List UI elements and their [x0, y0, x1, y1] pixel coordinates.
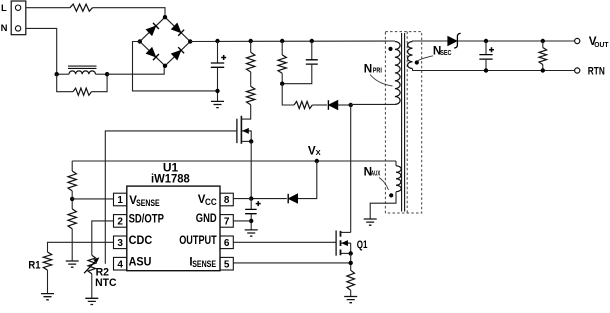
ground NTC — [85, 298, 98, 304]
svg-text:iW1788: iW1788 — [151, 172, 190, 186]
wire clamp R to diode — [312, 104, 327, 106]
svg-text:GND: GND — [196, 213, 217, 225]
fusible resistor RF — [70, 4, 93, 11]
divider resistor R3b — [68, 209, 76, 229]
wire VCC diode to VCC node — [251, 198, 287, 200]
NPRI pointer — [370, 75, 393, 87]
svg-text:8: 8 — [224, 195, 230, 206]
wire Vx line — [72, 160, 396, 162]
transformer dashed box — [385, 32, 421, 213]
wire divider to ground — [71, 229, 73, 261]
pin 8 box — [220, 193, 233, 206]
wire bus to snubber C — [311, 41, 313, 60]
resistor R1 — [43, 252, 51, 270]
Q1 channel segments — [340, 231, 342, 255]
node output cap top — [484, 39, 488, 43]
svg-text:SEC: SEC — [440, 48, 452, 57]
output cap plus — [489, 47, 494, 52]
ground VCC cap — [245, 230, 258, 236]
NTC thermistor R2 — [88, 255, 96, 274]
wire R5 to R6 — [250, 72, 252, 86]
svg-text:3: 3 — [117, 238, 123, 249]
svg-text:R1: R1 — [28, 260, 40, 272]
node choke-left — [55, 72, 59, 76]
wire drain line — [350, 104, 352, 232]
wire aux top — [395, 161, 397, 166]
wire choke left node — [57, 73, 69, 75]
ground bulk cap — [211, 101, 224, 107]
wire bus to R5 — [250, 41, 252, 52]
pin 1 box — [114, 193, 127, 206]
ground aux — [364, 219, 377, 225]
wire to damping resistor — [57, 74, 73, 92]
Q1 body to source — [350, 243, 352, 253]
wire pin3 to R1 — [48, 242, 114, 252]
wire bridge negative return — [133, 42, 218, 91]
wire schottky to VOUT — [458, 40, 575, 42]
wire bus to snubber R — [281, 41, 283, 55]
primary winding NPRI — [395, 42, 400, 105]
node bridge left — [138, 39, 142, 43]
svg-text:AUX: AUX — [371, 169, 380, 178]
filter choke L1 core — [68, 66, 97, 68]
secondary phase dot — [415, 60, 419, 64]
VCC capacitor C4 — [245, 209, 257, 213]
svg-text:1: 1 — [117, 195, 123, 206]
Q1 drain stub — [341, 231, 351, 233]
node load resistor top — [541, 39, 545, 43]
primary phase dot — [388, 47, 392, 51]
wire bus to bulk cap — [217, 41, 219, 63]
wire to output cap — [485, 41, 487, 55]
wire M1 body to source — [250, 131, 252, 142]
wire VCC cap bottom — [250, 214, 252, 230]
wire choke to bridge bottom — [107, 66, 164, 74]
schottky cathode — [454, 33, 461, 48]
node divider — [70, 197, 74, 201]
damping resistor RD — [73, 88, 92, 95]
pin 2 box — [114, 215, 127, 228]
wire pin8 to VCC node — [233, 198, 251, 200]
bridge diode D3 (left to bottom) — [146, 47, 156, 57]
secondary winding NSEC — [408, 42, 413, 69]
svg-text:CC: CC — [205, 197, 217, 207]
node bulk cap bottom — [215, 89, 219, 93]
startup MOSFET M1 body arrow — [241, 130, 251, 132]
bridge diode D2 (top to right) — [171, 23, 181, 33]
svg-text:PRI: PRI — [373, 66, 382, 75]
Q1 source stub — [341, 252, 351, 254]
node drain clamp — [349, 103, 353, 107]
wire sense resistor to ground — [350, 290, 352, 296]
NSEC pointer — [418, 56, 434, 61]
wire snubber R to node — [281, 73, 283, 83]
output schottky diode D6 — [448, 36, 458, 46]
node load resistor bottom — [541, 68, 545, 72]
node output cap bottom — [484, 68, 488, 72]
pin 4 box — [114, 257, 127, 270]
NAUX pointer — [379, 178, 389, 191]
VCC diode D7 — [288, 194, 298, 204]
wire snubber C to node — [282, 64, 312, 84]
svg-text:SENSE: SENSE — [136, 198, 160, 208]
svg-text:RTN: RTN — [588, 66, 605, 78]
wire R1 to ground — [47, 270, 49, 294]
terminal RTN — [575, 68, 580, 73]
bridge diode D4 (bottom to right) — [171, 50, 181, 60]
svg-text:7: 7 — [224, 217, 230, 228]
svg-text:N: N — [364, 62, 372, 75]
wire divider mid — [71, 191, 73, 209]
terminal VOUT — [575, 38, 580, 43]
wire fuse to bridge top — [93, 8, 166, 18]
load resistor R9 — [539, 48, 547, 65]
node bus snubber-R — [280, 39, 284, 43]
Q1 gate bar — [335, 230, 337, 255]
svg-text:SD/OTP: SD/OTP — [129, 214, 165, 226]
node M1 source — [249, 139, 253, 143]
bridge diode D1 (left to top) — [146, 26, 156, 36]
startup MOSFET M1 gate bar — [236, 119, 238, 143]
node VCC — [249, 196, 253, 200]
node bus bulk-cap — [215, 39, 219, 43]
svg-text:6: 6 — [224, 238, 230, 249]
node snubber — [280, 82, 284, 86]
pin 3 box — [114, 236, 127, 249]
bridge frame — [140, 17, 190, 66]
node Q1 source — [349, 251, 353, 255]
pin 7 box — [220, 215, 233, 228]
ground R1 — [41, 294, 54, 300]
svg-text:4: 4 — [117, 259, 123, 270]
wire choke right — [96, 73, 108, 75]
wire secondary bottom — [413, 69, 575, 71]
snubber capacitor C2 — [306, 60, 318, 64]
wire M1 source — [241, 140, 251, 142]
wire DC bus — [190, 40, 395, 43]
divider resistor R3a — [68, 171, 76, 191]
node bridge bottom — [163, 64, 167, 68]
startup resistor R6 — [247, 86, 255, 104]
ground divider — [66, 261, 79, 267]
wire M1 gate to ASU line — [105, 131, 237, 264]
wire NTC to ground — [91, 274, 93, 299]
aux winding NAUX — [396, 166, 401, 192]
wire load resistor — [542, 41, 544, 48]
node bridge top — [163, 15, 167, 19]
node bus snubber-C — [310, 39, 314, 43]
svg-text:N: N — [1, 23, 8, 34]
node ISENSE — [349, 261, 353, 265]
svg-text:OUT: OUT — [594, 40, 609, 49]
Q1 body arrow — [341, 242, 351, 244]
clamp diode D5 — [328, 100, 338, 110]
wire secondary top — [413, 40, 451, 43]
svg-text:NTC: NTC — [95, 277, 116, 289]
wire snubber node to clamp R — [282, 84, 294, 105]
svg-text:SENSE: SENSE — [192, 259, 216, 269]
node GND pin — [249, 219, 253, 223]
wire damping resistor to right node — [92, 74, 108, 92]
wire bulk cap to ground — [217, 67, 219, 101]
svg-text:OUTPUT: OUTPUT — [179, 235, 217, 247]
NTC arrow — [84, 259, 97, 273]
wire VCC cap top — [250, 199, 252, 210]
node Vx — [315, 159, 319, 163]
wire N to choke — [26, 28, 57, 74]
transformer core — [402, 33, 405, 212]
wire clamp diode to drain line — [338, 104, 351, 106]
pin 6 box — [220, 236, 233, 249]
svg-text:ASU: ASU — [129, 257, 152, 269]
node bus startup — [249, 39, 253, 43]
wire divider to pin1 — [72, 198, 113, 200]
bulk capacitor C1 — [211, 63, 224, 67]
svg-text:Q1: Q1 — [357, 239, 368, 251]
svg-text:L: L — [1, 3, 7, 14]
transformer inner dashed line — [406, 32, 408, 213]
svg-text:CDC: CDC — [129, 235, 153, 247]
ground sense resistor — [344, 297, 357, 303]
node choke-right — [105, 72, 109, 76]
wire aux bottom to ground — [370, 192, 396, 219]
wire pin2 to NTC — [92, 221, 114, 255]
pin 5 box — [220, 257, 233, 270]
wire pin6 OUTPUT to Q1 gate — [233, 241, 336, 243]
wire pin7 to ground node — [233, 220, 251, 222]
VCC cap plus — [256, 201, 261, 206]
wire pin5 ISENSE to sense node — [233, 262, 350, 264]
wire primary bottom to drain line — [351, 103, 395, 105]
aux phase dot — [389, 193, 393, 197]
wire output cap bottom — [485, 59, 487, 70]
IC U1 body — [127, 186, 220, 271]
clamp resistor R8 — [294, 101, 312, 108]
node bridge right — [188, 39, 192, 43]
wire R6 to startup FET drain — [241, 105, 250, 119]
wire Q1 source down — [350, 253, 352, 270]
svg-text:X: X — [316, 148, 321, 157]
filter choke L1 — [69, 71, 96, 74]
bulk cap plus — [221, 55, 226, 60]
snubber resistor R7 — [278, 55, 286, 73]
svg-text:2: 2 — [117, 217, 123, 228]
sense resistor R10 — [347, 270, 355, 290]
output capacitor C3 — [479, 55, 492, 60]
input terminal block — [11, 1, 26, 35]
wire L to fuse resistor — [26, 7, 70, 9]
startup resistor R5 — [247, 52, 255, 72]
startup MOSFET M1 channel bar — [240, 116, 242, 144]
wire M1 source to VCC node — [250, 141, 252, 198]
svg-text:5: 5 — [224, 259, 230, 270]
wire Vx to divider R3a — [71, 161, 73, 171]
wire primary top — [394, 40, 396, 43]
wire Vx branch down — [298, 161, 317, 199]
